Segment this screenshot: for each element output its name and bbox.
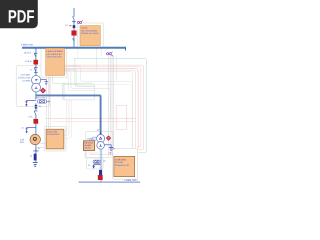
svg-text:001: 001	[20, 141, 25, 144]
svg-text:2x: 2x	[103, 159, 106, 162]
svg-text:10,5 kV: 10,5 kV	[24, 52, 32, 55]
svg-text:Comentario: Comentario	[47, 133, 60, 136]
svg-text:Linea:: Linea:	[81, 27, 88, 30]
svg-text:2-CB-01: 2-CB-01	[25, 60, 33, 63]
svg-text:Puesta en march: Puesta en march	[81, 32, 99, 35]
svg-text:NO-0101-1: NO-0101-1	[37, 96, 49, 99]
svg-text:2-0001: 2-0001	[87, 138, 95, 141]
svg-text:auxiliar: auxiliar	[84, 144, 92, 147]
svg-text:cabina: cabina	[84, 147, 91, 150]
svg-text:10,5/0,72kV: 10,5/0,72kV	[18, 77, 31, 80]
svg-text:2-BBS-0101: 2-BBS-0101	[21, 44, 34, 47]
svg-text:Protección dif: Protección dif	[115, 164, 129, 167]
svg-text:2x: 2x	[21, 126, 24, 129]
svg-text:2-M: 2-M	[20, 138, 24, 141]
svg-text:2-BBS-0301: 2-BBS-0301	[124, 179, 138, 182]
svg-text:alim secundario: alim secundario	[81, 29, 98, 32]
svg-text:PDF: PDF	[8, 6, 35, 26]
svg-text:2-01: 2-01	[28, 116, 33, 119]
svg-text:6,3 MVA: 6,3 MVA	[22, 79, 31, 82]
svg-text:2c: 2c	[30, 154, 33, 157]
svg-text:Circuito: Circuito	[115, 161, 124, 164]
svg-text:kV: kV	[65, 24, 68, 27]
svg-text:cierre leva tier: cierre leva tier	[47, 55, 62, 58]
